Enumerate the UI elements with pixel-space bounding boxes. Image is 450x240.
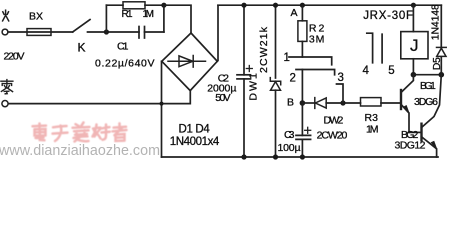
svg-text:0.22µ/640V: 0.22µ/640V xyxy=(95,57,155,69)
zener DW2 xyxy=(302,102,314,104)
svg-text:4: 4 xyxy=(363,65,370,77)
node: pin3 junction xyxy=(340,100,345,105)
svg-text:J: J xyxy=(410,36,419,55)
node: switch/R1/C1 junction xyxy=(104,29,109,34)
C3 plus sign xyxy=(305,127,311,133)
neutral terminal glyph 零 xyxy=(1,80,13,94)
wire: neutral rail to bridge bottom corner xyxy=(8,91,190,103)
relay coil J xyxy=(412,5,414,31)
wire: terminal to fuse to switch xyxy=(8,31,73,33)
node B xyxy=(300,100,306,106)
node: BG2 collector junction xyxy=(439,72,445,78)
zener DW1 xyxy=(275,5,277,78)
relay contact pin 2 xyxy=(296,70,335,75)
svg-text:www.dianziaihaozhe.com: www.dianziaihaozhe.com xyxy=(0,143,160,159)
svg-text:B: B xyxy=(287,97,294,109)
svg-text:1M: 1M xyxy=(143,9,155,20)
svg-text:R3: R3 xyxy=(365,112,379,124)
resistor R3 xyxy=(361,98,382,106)
svg-text:2CW21k: 2CW21k xyxy=(258,26,270,73)
svg-text:DW2: DW2 xyxy=(324,114,344,126)
svg-text:3: 3 xyxy=(338,72,344,84)
wire: bridge left corner down (DC-) xyxy=(161,61,163,157)
svg-text:R1: R1 xyxy=(122,9,133,20)
svg-text:JRX-30F: JRX-30F xyxy=(363,10,413,22)
svg-text:C1: C1 xyxy=(117,41,129,53)
node: C2 bottom xyxy=(241,154,246,159)
svg-text:3DG12: 3DG12 xyxy=(395,139,426,151)
relay contact pin 4 xyxy=(367,33,373,63)
svg-text:3M: 3M xyxy=(309,34,325,46)
resistor R1 xyxy=(106,4,123,6)
svg-text:2: 2 xyxy=(290,72,296,84)
live terminal glyph 火 xyxy=(3,10,9,21)
svg-text:1N4001x4: 1N4001x4 xyxy=(170,136,220,148)
svg-text:1: 1 xyxy=(284,52,290,64)
bridge rectifier D1-D4 diamond xyxy=(162,33,218,91)
node: R1/C1 right junction xyxy=(161,3,166,8)
wire: switch to C1 xyxy=(88,31,140,33)
svg-text:5: 5 xyxy=(388,65,394,77)
svg-text:3DG6: 3DG6 xyxy=(414,96,438,108)
wire: bridge right corner up and DC+ rail xyxy=(217,5,441,61)
svg-text:220V: 220V xyxy=(4,51,25,63)
svg-text:C3: C3 xyxy=(284,129,295,141)
relay contact pin 1 xyxy=(289,57,332,65)
relay contact pin 5 xyxy=(381,34,383,63)
switch K blade xyxy=(73,20,90,33)
svg-text:2CW20: 2CW20 xyxy=(317,130,348,142)
fuse BX xyxy=(27,29,51,36)
node: DW1 top xyxy=(273,3,278,8)
node: DC-/neutral crossing xyxy=(160,102,164,106)
node: coil top xyxy=(411,3,416,8)
live terminal circle xyxy=(2,29,8,35)
wire: bottom rail xyxy=(162,156,439,158)
svg-text:A: A xyxy=(291,7,298,19)
node: coil bottom / BG1 collector xyxy=(411,72,417,78)
node: C2 top xyxy=(241,3,246,8)
svg-text:D1 D4: D1 D4 xyxy=(179,124,211,136)
wire: pin2 down to node B xyxy=(301,70,303,104)
transistor BG2 xyxy=(409,131,420,133)
svg-text:1M: 1M xyxy=(366,123,379,135)
svg-text:50V: 50V xyxy=(215,92,231,104)
C2 plus sign xyxy=(246,66,252,72)
wire: to bridge top corner xyxy=(164,5,191,33)
wire: right junction vertical xyxy=(163,5,165,32)
watermark 电子爱好者 (pink) xyxy=(33,123,127,142)
resistor R2 xyxy=(301,5,303,21)
node: DW1 bottom xyxy=(273,154,278,159)
neutral terminal circle xyxy=(2,101,8,107)
node: C3 bottom xyxy=(300,154,305,159)
relay contact pin 3 xyxy=(337,84,344,103)
transistor BG1 xyxy=(400,90,402,109)
capacitor C2 xyxy=(243,5,245,75)
svg-text:D5: D5 xyxy=(431,57,443,70)
svg-text:DW1: DW1 xyxy=(247,73,259,101)
svg-text:BX: BX xyxy=(29,10,43,22)
capacitor C1 xyxy=(138,27,140,39)
svg-text:100µ: 100µ xyxy=(278,142,301,154)
node A xyxy=(300,3,305,8)
svg-text:BG1: BG1 xyxy=(420,80,436,92)
diode D5 xyxy=(440,5,442,75)
bridge inner diode xyxy=(168,56,206,68)
svg-text:K: K xyxy=(78,41,86,55)
wire: collector node line xyxy=(413,74,441,76)
svg-text:1N4148: 1N4148 xyxy=(430,4,442,40)
wire: junction up to R1 level xyxy=(105,5,107,32)
capacitor C3 xyxy=(301,103,303,135)
